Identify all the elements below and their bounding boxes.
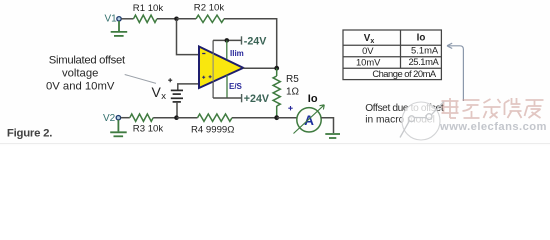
resistor R5 (vertical): [273, 68, 280, 118]
junction output node: [274, 66, 279, 71]
svg-text:www.elecfans.com: www.elecfans.com: [439, 121, 547, 133]
resistor R3: [130, 114, 153, 121]
watermark logo circle: [400, 102, 444, 140]
ammeter AM1 circle: [297, 108, 321, 132]
resistor R2: [196, 15, 224, 22]
ammeter plus sign: [288, 106, 292, 110]
callout line to Vx: [125, 75, 156, 84]
arrow from text to table: [447, 46, 463, 101]
svg-text:R1 10k: R1 10k: [133, 3, 164, 14]
wire R3 to battery junction: [153, 117, 176, 119]
svg-text:Io: Io: [417, 33, 426, 44]
svg-text:5.1mA: 5.1mA: [411, 45, 439, 56]
wire battery to bottom rail: [176, 103, 178, 118]
junction bottom rail at battery: [174, 115, 179, 120]
svg-text:-24V: -24V: [244, 35, 267, 47]
ground at V1: [111, 21, 128, 36]
resistor R4: [198, 114, 232, 121]
bottom scan artifact line: [0, 143, 550, 145]
wire battery to non-inverting input: [178, 84, 199, 90]
svg-text:Simulated offset: Simulated offset: [49, 55, 126, 67]
svg-text:+24V: +24V: [244, 93, 270, 105]
svg-text:V1: V1: [105, 14, 118, 25]
svg-text:0V: 0V: [362, 45, 374, 56]
svg-text:1Ω: 1Ω: [286, 86, 300, 97]
wire E/S pin: [226, 75, 228, 98]
svg-text:Vx: Vx: [152, 84, 167, 102]
wire junction to ammeter: [277, 117, 297, 119]
svg-text:R4 9999Ω: R4 9999Ω: [191, 124, 234, 135]
node V2 circle: [116, 116, 120, 120]
svg-text:Io: Io: [308, 93, 318, 105]
junction top rail: [174, 17, 179, 22]
wire op-amp output: [243, 67, 277, 69]
wire Ilim pin: [226, 40, 228, 59]
svg-text:Change of 20mA: Change of 20mA: [372, 68, 437, 79]
ground at ammeter: [325, 134, 340, 138]
op-amp minus mark: [202, 53, 205, 55]
svg-text:E/S: E/S: [229, 82, 243, 91]
wire feedback to inverting input: [177, 20, 200, 55]
watermark red characters: [442, 98, 544, 118]
svg-text:Figure 2.: Figure 2.: [7, 128, 52, 140]
ground at V2: [110, 120, 127, 136]
wire junction to R4: [177, 117, 198, 119]
terminal tick -24V: [241, 36, 243, 44]
svg-text:R5: R5: [286, 74, 299, 85]
svg-text:R3 10k: R3 10k: [133, 123, 164, 134]
op-amp plus marks: [202, 75, 211, 79]
battery plus sign: [168, 78, 172, 82]
wire ammeter to ground: [321, 118, 333, 133]
svg-text:voltage: voltage: [62, 68, 98, 80]
wire -24V rail: [213, 39, 241, 41]
ammeter arrow: [294, 105, 325, 134]
svg-text:0V and 10mV: 0V and 10mV: [46, 81, 115, 93]
wire R1 to junction: [157, 18, 177, 20]
wire V1 node to R1: [121, 18, 133, 20]
battery Vx plates: [171, 90, 183, 102]
table grid: [343, 30, 441, 80]
wire V2 to R3: [121, 117, 130, 119]
resistor R1: [134, 15, 157, 22]
wire junction to R2: [177, 18, 197, 20]
wire R2 to output node (top right corner): [224, 19, 277, 67]
junction bottom rail at R5: [274, 115, 279, 120]
node V1 circle: [117, 17, 121, 21]
wire R4 to R5 junction: [232, 117, 277, 119]
terminal tick +24V: [241, 94, 243, 102]
svg-text:Ilim: Ilim: [230, 49, 244, 58]
supply wire through op-amp: [212, 40, 214, 53]
svg-text:Vx: Vx: [364, 33, 375, 45]
junction Ilim: [225, 38, 230, 43]
svg-text:10mV: 10mV: [356, 56, 381, 67]
svg-text:R2 10k: R2 10k: [194, 2, 225, 13]
svg-text:V2: V2: [103, 113, 116, 124]
svg-text:25.1mA: 25.1mA: [408, 56, 439, 67]
op-amp U1 triangle: [199, 47, 243, 89]
wire +24V rail: [213, 97, 241, 99]
